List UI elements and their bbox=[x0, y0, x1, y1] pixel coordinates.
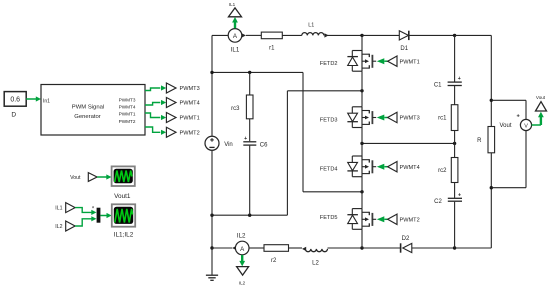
wire IL1 to mux bbox=[75, 208, 91, 213]
wire r1 to L1 bbox=[282, 34, 301, 36]
wire top rail left segment bbox=[212, 34, 228, 36]
resistor R bbox=[488, 127, 495, 153]
svg-text:+: + bbox=[458, 76, 461, 82]
svg-text:+: + bbox=[458, 192, 461, 198]
wire leg seg bbox=[361, 71, 363, 107]
svg-text:PWM Signal: PWM Signal bbox=[72, 105, 104, 111]
wire L1 to leg top bbox=[326, 34, 363, 36]
wire right branch down bbox=[490, 35, 492, 248]
port arrow after L1 bbox=[324, 33, 328, 37]
svg-text:C2: C2 bbox=[434, 199, 442, 205]
svg-text:Vout1: Vout1 bbox=[114, 193, 131, 200]
resistor rc2 bbox=[451, 158, 458, 183]
goto tag IL1 wire bbox=[234, 23, 236, 29]
svg-text:PWMT3: PWMT3 bbox=[180, 86, 200, 92]
wire D1 to C1 node bbox=[409, 34, 455, 36]
wire tap down to FETD4/5 mid bbox=[302, 72, 304, 191]
svg-text:D2: D2 bbox=[402, 236, 410, 242]
svg-text:IL1: IL1 bbox=[229, 2, 236, 7]
wire FETD4/5 mid bbox=[303, 191, 362, 193]
from tag PWMT2 bbox=[377, 214, 420, 224]
voltmeter Vout bbox=[520, 119, 531, 130]
current sensor IL2 bbox=[235, 241, 249, 255]
from tag Vout bbox=[88, 173, 97, 182]
resistor rc3 bbox=[246, 95, 253, 119]
svg-text:IL2: IL2 bbox=[237, 232, 246, 239]
svg-text:L1: L1 bbox=[308, 22, 314, 28]
wire leg seg bbox=[361, 177, 363, 209]
svg-text:IL2: IL2 bbox=[239, 280, 246, 285]
svg-text:FETD5: FETD5 bbox=[320, 215, 338, 221]
wire rc mid line bbox=[362, 142, 455, 144]
voltage source Vin bbox=[211, 136, 213, 138]
svg-text:FETD3: FETD3 bbox=[320, 117, 338, 123]
PWM Signal Generator block bbox=[41, 85, 145, 136]
capacitor C1 bbox=[448, 81, 462, 83]
wire FETD2/3 mid down bbox=[286, 91, 288, 215]
svg-text:C1: C1 bbox=[434, 83, 442, 89]
svg-text:Vout: Vout bbox=[499, 123, 511, 129]
from tag PWMT1 bbox=[377, 56, 420, 66]
svg-text:rc2: rc2 bbox=[438, 168, 447, 174]
wire C1 node to right corner bbox=[455, 34, 492, 36]
svg-text:PWMT4: PWMT4 bbox=[400, 165, 420, 171]
goto tag PWMT4 bbox=[166, 98, 176, 108]
svg-text:D1: D1 bbox=[400, 46, 408, 52]
goto tag PWMT3 bbox=[166, 83, 176, 93]
from tag IL2 (left) bbox=[66, 221, 75, 231]
svg-text:Vout: Vout bbox=[70, 175, 81, 181]
wire L2 to leg bottom bbox=[328, 247, 363, 249]
wire PWM out 4 bbox=[145, 127, 160, 132]
from tag IL1 (left) bbox=[66, 203, 75, 213]
svg-text:rc3: rc3 bbox=[231, 106, 240, 112]
svg-text:IL1: IL1 bbox=[55, 206, 62, 212]
wire C6 down bbox=[249, 146, 251, 216]
inductor L1 bbox=[302, 33, 324, 36]
mux bbox=[97, 208, 101, 223]
svg-text:PWMT4: PWMT4 bbox=[119, 105, 136, 110]
svg-text:r2: r2 bbox=[271, 258, 277, 264]
svg-text:L2: L2 bbox=[312, 260, 319, 266]
wire left rail upper (Vin+ rail) bbox=[211, 35, 213, 136]
svg-text:PWMT1: PWMT1 bbox=[400, 59, 420, 65]
port arrow after IL1 bbox=[242, 33, 246, 37]
wire bottom rail to IL2 bbox=[212, 247, 232, 249]
svg-text:PWMT2: PWMT2 bbox=[400, 217, 420, 223]
mosfet FETD4 bbox=[320, 156, 376, 177]
svg-text:FETD2: FETD2 bbox=[320, 61, 338, 67]
diode D1 bbox=[399, 31, 408, 40]
svg-text:PWMT1: PWMT1 bbox=[180, 116, 200, 122]
wire leg top to D1 bbox=[362, 34, 399, 36]
goto tag IL2 wire bbox=[241, 255, 243, 261]
svg-text:FETD4: FETD4 bbox=[320, 167, 338, 173]
wire Vin+ tap line bbox=[212, 71, 303, 73]
goto tag PWMT2 bbox=[166, 127, 176, 137]
svg-text:R: R bbox=[477, 138, 482, 144]
goto tag IL2 bbox=[237, 267, 249, 276]
svg-text:In1: In1 bbox=[43, 98, 50, 104]
goto tag Vout bbox=[536, 102, 547, 111]
wire FET leg bbox=[361, 35, 363, 50]
wire C2 down bbox=[454, 202, 456, 248]
svg-text:Generator: Generator bbox=[74, 114, 101, 120]
wire r2 to L2 bbox=[289, 247, 303, 249]
wire FETD2/3 mid bbox=[287, 90, 362, 92]
wire C2 node to right branch bbox=[455, 247, 492, 249]
mosfet FETD2 bbox=[320, 51, 376, 72]
port arrow before IL2 bbox=[232, 246, 236, 250]
resistor rc1 bbox=[451, 105, 458, 131]
wire D2 to C2 node bbox=[412, 247, 455, 249]
svg-text:PWMT2: PWMT2 bbox=[119, 119, 136, 124]
wire leg bottom to D2 bbox=[362, 247, 401, 249]
wire rc3 branch top bbox=[249, 72, 251, 95]
wire IL2 to mux bbox=[75, 219, 91, 226]
wire PWM out 1 bbox=[145, 88, 160, 91]
svg-text:0.6: 0.6 bbox=[10, 96, 20, 103]
svg-text:PWMT2: PWMT2 bbox=[180, 130, 200, 136]
wire to voltmeter top bbox=[491, 99, 526, 101]
diode D2 bbox=[400, 243, 402, 252]
wire left rail lower bbox=[211, 150, 213, 248]
mosfet FETD5 bbox=[320, 209, 376, 230]
goto tag IL1 bbox=[229, 8, 242, 17]
capacitor C6 bbox=[243, 141, 256, 143]
scope IL1;IL2 bbox=[112, 204, 135, 226]
svg-text:PWMT3: PWMT3 bbox=[119, 97, 136, 102]
svg-text:+: + bbox=[244, 136, 247, 142]
wire C1 to rc1 bbox=[454, 86, 456, 105]
svg-text:PWMT4: PWMT4 bbox=[180, 101, 200, 107]
wire rc3 to C6 bbox=[249, 119, 251, 141]
from tag PWMT3 bbox=[377, 112, 420, 122]
wire rc2 to C2 bbox=[454, 183, 456, 198]
svg-text:IL1;IL2: IL1;IL2 bbox=[114, 232, 134, 239]
svg-text:PWMT3: PWMT3 bbox=[400, 116, 420, 122]
goto tag PWMT1 bbox=[166, 113, 176, 123]
ground bbox=[211, 248, 213, 275]
wire voltmeter bottom bbox=[525, 131, 527, 188]
capacitor C2 bbox=[448, 197, 462, 199]
svg-text:C6: C6 bbox=[260, 143, 268, 149]
svg-text:IL2: IL2 bbox=[55, 224, 62, 230]
current sensor IL1 bbox=[228, 29, 242, 43]
from tag PWMT4 bbox=[377, 162, 420, 172]
wire Vout to scope bbox=[97, 176, 106, 178]
wire constant to PWM block bbox=[26, 98, 36, 100]
wire leg seg bbox=[361, 128, 363, 157]
wire C1 branch top bbox=[454, 35, 456, 81]
svg-text:Vin: Vin bbox=[224, 142, 233, 148]
goto tag Vout wire bbox=[532, 124, 541, 126]
svg-text:PWMT1: PWMT1 bbox=[119, 112, 136, 117]
svg-text:IL1: IL1 bbox=[231, 47, 240, 54]
resistor r2 bbox=[264, 245, 289, 252]
wire IL1 to r1 bbox=[246, 34, 261, 36]
wire lower link line bbox=[212, 214, 287, 216]
wire mux to scope bbox=[100, 215, 106, 217]
mosfet FETD3 bbox=[320, 107, 376, 128]
wire PWM out 2 bbox=[145, 103, 160, 106]
scope Vout1 bbox=[112, 166, 135, 186]
wire PWM out 3 bbox=[145, 113, 160, 118]
svg-text:V: V bbox=[524, 123, 528, 129]
svg-text:Vout: Vout bbox=[536, 95, 546, 100]
svg-text:rc1: rc1 bbox=[438, 116, 447, 122]
wire rc1 to mid bbox=[454, 131, 456, 158]
port arrow before L2 bbox=[302, 247, 306, 251]
svg-text:r1: r1 bbox=[269, 46, 275, 52]
constant block D bbox=[4, 92, 26, 107]
wire IL2 to r2 bbox=[249, 247, 264, 249]
svg-text:D: D bbox=[11, 112, 16, 119]
wire leg seg bbox=[361, 229, 363, 248]
resistor r1 bbox=[261, 32, 282, 39]
inductor L2 bbox=[305, 249, 327, 252]
